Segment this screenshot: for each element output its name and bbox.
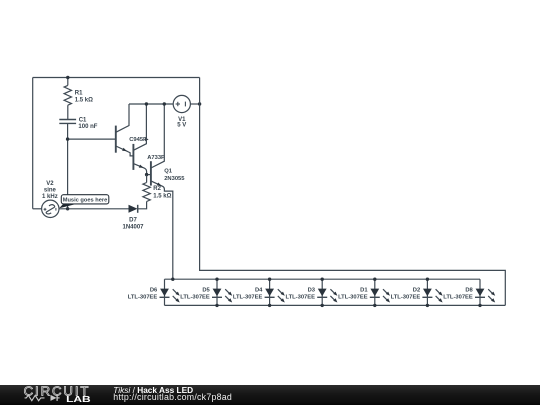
svg-text:LAB: LAB [66, 396, 91, 405]
arrow mark near C945P [145, 138, 149, 142]
voltage source V1 [173, 95, 190, 112]
footer bar [0, 385, 540, 405]
title text [113, 386, 193, 394]
transistor Q1 2N3055 [150, 161, 152, 185]
node rail/A733P collector [145, 102, 148, 105]
wire right rail down to LED return [200, 78, 506, 306]
node V2/C1 branch junction [66, 207, 69, 210]
tooltip Music goes here [59, 204, 77, 209]
node C1/base junction [66, 137, 69, 140]
node Q1 emitter feed [171, 278, 174, 281]
capacitor C1 [59, 119, 76, 121]
diode D7 [129, 205, 138, 213]
wire node to Q base (C945P) [68, 138, 116, 140]
emitter arrow Q1 [157, 183, 162, 186]
LED D3 LTL-307EE [321, 279, 323, 305]
LED D6 LTL-307EE [164, 279, 166, 305]
wire V1 to right rail [190, 103, 199, 105]
wire R2 bottom to D7 [138, 202, 147, 209]
LED D5 LTL-307EE [216, 279, 218, 305]
node rail/Q1 collector [163, 102, 166, 105]
wire V2 to D7 [59, 208, 129, 210]
wire top rail [33, 77, 200, 79]
node Q1 base [145, 173, 148, 176]
LED D8 LTL-307EE [479, 279, 481, 305]
resistor R2 [143, 183, 150, 202]
wire left rail [32, 78, 34, 209]
signal source V2 sine [42, 200, 59, 217]
wire LED bottom rail [165, 304, 506, 306]
wire R1 to C1 [67, 105, 69, 119]
wire C1 bottom to V2 node [67, 124, 69, 209]
resistor R1 [64, 85, 71, 105]
wire R1 top lead [67, 78, 69, 86]
emitter arrow A733P [139, 165, 144, 168]
node R1 top junction [66, 76, 69, 79]
transistor C945P (NPN) [115, 126, 117, 153]
wire base node to R2 [146, 175, 148, 183]
transistor A733P [132, 144, 134, 170]
emitter arrow C945P [122, 148, 127, 151]
LED D4 LTL-307EE [269, 279, 271, 305]
LED D1 LTL-307EE [374, 279, 376, 305]
LED D2 LTL-307EE [426, 279, 428, 305]
node right rail/V1 [198, 102, 201, 105]
wire collector rail to V1 [129, 103, 173, 105]
wire left rail to V2 [33, 208, 42, 210]
wire LED top rail [165, 278, 481, 280]
